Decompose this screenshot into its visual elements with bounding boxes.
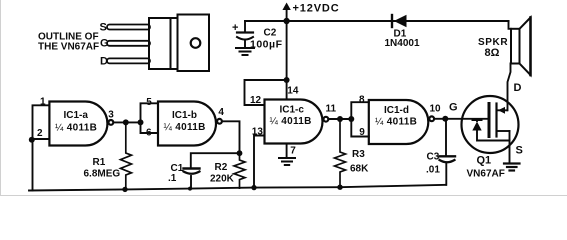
svg-text:68K: 68K (350, 164, 369, 175)
svg-text:G: G (100, 38, 109, 50)
svg-text:D: D (100, 56, 108, 68)
svg-text:VN67AF: VN67AF (467, 169, 505, 180)
svg-text:¼ 4011B: ¼ 4011B (375, 116, 417, 128)
svg-text:.01: .01 (426, 165, 440, 176)
svg-text:9: 9 (359, 127, 365, 138)
svg-text:¼ 4011B: ¼ 4011B (270, 115, 312, 127)
svg-text:Q1: Q1 (477, 155, 492, 167)
svg-text:6: 6 (146, 128, 152, 139)
svg-text:D: D (514, 82, 522, 94)
svg-text:100µF: 100µF (250, 39, 283, 51)
svg-text:G: G (449, 102, 458, 114)
svg-text:8Ω: 8Ω (485, 47, 500, 59)
svg-text:R2: R2 (215, 162, 228, 173)
svg-text:THE VN67AF: THE VN67AF (38, 42, 99, 53)
svg-text:C2: C2 (264, 28, 277, 39)
svg-text:+12VDC: +12VDC (293, 3, 340, 15)
svg-text:1N4001: 1N4001 (385, 38, 420, 49)
svg-text:4: 4 (218, 107, 224, 118)
svg-text:11: 11 (326, 104, 337, 115)
svg-text:R1: R1 (93, 157, 106, 168)
svg-text:C3: C3 (427, 152, 440, 163)
svg-text:6.8MEG: 6.8MEG (84, 169, 121, 180)
svg-text:13: 13 (252, 127, 264, 138)
svg-text:2: 2 (37, 128, 43, 139)
svg-text:5: 5 (146, 97, 152, 108)
svg-text:1: 1 (40, 97, 46, 108)
svg-text:12: 12 (250, 95, 262, 106)
svg-text:IC1-c: IC1-c (280, 105, 305, 116)
svg-text:IC1-b: IC1-b (172, 110, 197, 121)
svg-text:S: S (516, 145, 523, 157)
svg-text:7: 7 (290, 146, 296, 157)
svg-text:¼ 4011B: ¼ 4011B (55, 122, 97, 134)
svg-text:+: + (232, 22, 238, 34)
svg-text:10: 10 (430, 103, 442, 114)
svg-text:¼ 4011B: ¼ 4011B (164, 121, 206, 133)
svg-text:.1: .1 (168, 173, 177, 184)
svg-text:IC1-a: IC1-a (64, 110, 89, 121)
svg-text:8: 8 (359, 95, 365, 106)
svg-text:S: S (100, 22, 107, 34)
svg-text:220K: 220K (210, 174, 235, 185)
svg-text:14: 14 (287, 86, 299, 97)
svg-text:R3: R3 (352, 149, 365, 160)
svg-text:3: 3 (108, 110, 114, 121)
svg-text:IC1-d: IC1-d (384, 105, 409, 116)
